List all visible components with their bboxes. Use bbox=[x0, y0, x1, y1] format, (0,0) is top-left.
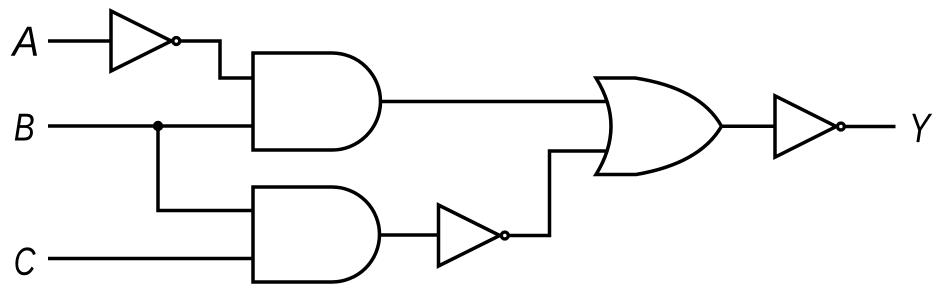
OR gate U5 bbox=[596, 78, 722, 175]
wire inverter U4 output to OR U5 lower input bbox=[505, 151, 612, 236]
label B bbox=[15, 114, 34, 141]
wire A input bbox=[48, 39, 112, 43]
wire C input to AND U3 bottom input bbox=[48, 257, 256, 261]
wire OR U5 output to inverter U6 bbox=[720, 124, 778, 128]
wire B branch to AND U3 top input bbox=[158, 126, 256, 211]
wire B input to AND U2 bottom input bbox=[48, 124, 256, 128]
AND gate U3 bbox=[253, 187, 380, 282]
inverter U6 bbox=[775, 96, 836, 157]
wire AND U2 output to OR U5 upper input bbox=[379, 100, 620, 104]
inverter U4 bbox=[439, 205, 500, 266]
inverter U4 bubble bbox=[501, 232, 508, 239]
wire inverter U6 output to Y bbox=[842, 125, 896, 129]
label Y bbox=[912, 114, 932, 142]
wire AND U3 output to inverter U4 bbox=[379, 233, 442, 237]
inverter U1 bubble bbox=[173, 38, 180, 45]
label C bbox=[15, 247, 35, 275]
AND gate U2 bbox=[253, 53, 381, 150]
wire inverter U1 output to AND U2 top input bbox=[176, 41, 256, 78]
junction node B bbox=[153, 121, 163, 131]
label A bbox=[11, 27, 37, 56]
inverter U1 bbox=[111, 11, 171, 71]
inverter U6 bubble bbox=[837, 123, 844, 130]
